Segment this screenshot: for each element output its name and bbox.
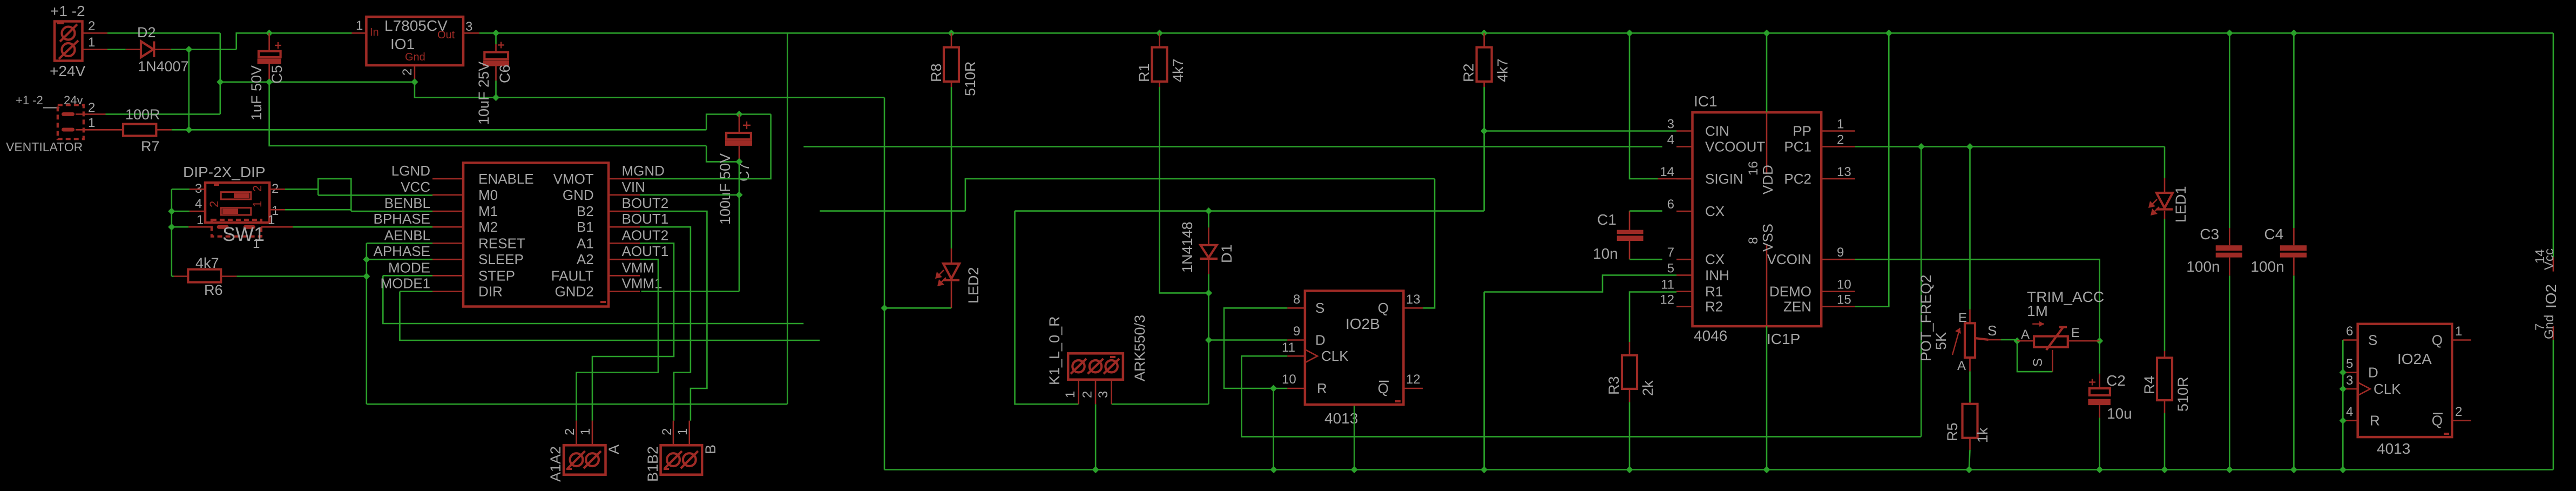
junction SIGIN top [1626, 30, 1633, 37]
svg-text:D1: D1 [1219, 244, 1235, 263]
svg-text:M2: M2 [478, 219, 498, 235]
wire K1 pin2 gnd [1095, 404, 1097, 469]
svg-text:+1 -2: +1 -2 [16, 93, 43, 107]
wire VIN [640, 194, 739, 196]
IC1 pin R2 12 [1660, 292, 1723, 314]
junction CIN row [1480, 127, 1488, 134]
connector X1 value +24V [50, 63, 85, 79]
svg-text:AOUT1: AOUT1 [622, 243, 669, 259]
IC1 VDD pin [1746, 33, 1776, 194]
junction trim E [2096, 338, 2103, 345]
IC1 pin PP 1 [1793, 117, 1855, 139]
bottom rail [884, 469, 2553, 470]
svg-text:9: 9 [1837, 245, 1844, 260]
svg-text:A: A [1957, 359, 1966, 373]
junction IO2A R [2340, 417, 2347, 424]
wire sw1 pin1 net [285, 209, 351, 211]
U1 pin M2 [432, 219, 498, 235]
IO2B pin R [1282, 372, 1327, 396]
junction C5 bottom [266, 78, 273, 85]
svg-text:VMM: VMM [622, 259, 655, 275]
wire LED2 gnd [884, 307, 951, 309]
svg-text:B2: B2 [577, 203, 594, 219]
net label AOUT2 [622, 227, 669, 243]
svg-text:100uF 50V: 100uF 50V [717, 153, 733, 225]
net label MGND [622, 163, 665, 179]
SW1 pin bottom left [188, 213, 212, 227]
svg-text:13: 13 [1837, 165, 1851, 179]
IC1 4046 [1694, 327, 1727, 344]
junction bottom rail [1351, 466, 1358, 473]
IC1 pin VCOIN 9 [1767, 245, 1855, 267]
IO1 refdes [390, 36, 415, 52]
wire D2out down to R7 row [188, 50, 190, 130]
net label LGND [391, 163, 430, 179]
net label APHASE [374, 243, 431, 259]
wire R5 gnd [1969, 450, 1970, 470]
IC1 pin INH 5 [1667, 261, 1729, 283]
svg-text:+1 -2: +1 -2 [50, 3, 85, 19]
svg-text:GND: GND [563, 187, 594, 203]
svg-text:1: 1 [675, 428, 690, 435]
junction C4 top [2290, 30, 2297, 37]
svg-text:R: R [1317, 380, 1327, 396]
junction R7 row [185, 126, 192, 133]
wire IO2B mid col [1354, 406, 1355, 470]
mark K1 [1110, 356, 1115, 358]
IC1 VSS pin [1746, 224, 1776, 470]
junction R2 top [1480, 30, 1488, 37]
junction bottom rail [1763, 466, 1770, 473]
net label BPHASE [374, 211, 431, 227]
pot POT_FREQ2 body [1965, 310, 1975, 358]
svg-text:LGND: LGND [391, 163, 430, 179]
junction R1 top [1156, 30, 1163, 37]
label C1 [1597, 211, 1617, 228]
wire VMM1 corner [641, 291, 739, 292]
label DIP-2X_DIP [183, 164, 266, 180]
mark IO2B [1395, 400, 1401, 402]
IO2B pin S [1287, 292, 1324, 316]
svg-text:BENBL: BENBL [384, 195, 430, 211]
junction C7 bottom [735, 158, 742, 165]
svg-text:B1B2: B1B2 [645, 446, 661, 482]
resistor R7 [123, 124, 172, 136]
svg-text:CLK: CLK [2374, 381, 2401, 397]
capacitor C2 [2088, 341, 2111, 469]
SW1 digit 2 left [207, 201, 221, 207]
label B [702, 445, 719, 454]
junction C6 top [492, 30, 499, 37]
svg-text:2: 2 [400, 69, 415, 76]
SW1 pin4 [190, 197, 205, 211]
junction D row [1205, 337, 1212, 344]
SIGIN lead [1658, 178, 1693, 180]
svg-text:10n: 10n [1593, 245, 1618, 262]
svg-text:IO2B: IO2B [1346, 315, 1380, 332]
svg-text:+24V: +24V [50, 63, 85, 79]
label R7 [141, 138, 160, 154]
wire AOUT2 [592, 243, 674, 420]
junction R8 top [948, 30, 955, 37]
IO2 Gnd pin [2533, 315, 2557, 340]
label 2k R3 [1640, 380, 1656, 396]
wire sw1 left column [171, 189, 172, 276]
label 10uF 25V [476, 62, 492, 125]
wire sw1 pin4 [172, 211, 190, 212]
svg-text:4046: 4046 [1694, 327, 1727, 344]
label 510R R4 [2175, 376, 2191, 412]
wire pin2 to gnd corner [107, 32, 220, 34]
net label BOUT2 [622, 195, 669, 211]
junction bottom rail [2226, 466, 2233, 473]
IC1 pin PC1 2 [1784, 133, 1855, 155]
SW1 pin3 [190, 181, 205, 196]
wire SIGIN col [1630, 33, 1658, 179]
svg-text:C5: C5 [269, 65, 285, 84]
IC1 pin CIN 3 [1667, 117, 1729, 139]
wire Q column [1423, 179, 1435, 308]
svg-text:LED2: LED2 [965, 267, 982, 304]
wire C1 bottom [1630, 259, 1662, 260]
IO2 Vcc pin [2533, 248, 2557, 272]
svg-text:R7: R7 [141, 138, 160, 154]
svg-text:1N4148: 1N4148 [1179, 221, 1195, 273]
svg-text:1: 1 [356, 18, 363, 33]
svg-text:1k: 1k [1975, 427, 1991, 443]
junction mode row [363, 273, 370, 280]
IO2A pin Q [2432, 324, 2471, 348]
svg-text:VDD: VDD [1760, 165, 1776, 194]
junction aphase [363, 256, 370, 263]
wire 5v rail to connectors [367, 403, 788, 405]
wire INH gnd col [1483, 292, 1485, 470]
connector B pin1 [675, 421, 690, 446]
svg-text:5: 5 [1667, 261, 1674, 275]
wire C5 gnd down [269, 82, 707, 146]
svg-text:FAULT: FAULT [551, 267, 594, 284]
wire 407 to ventilator [106, 113, 220, 115]
label SW1 gate 1 [253, 237, 260, 251]
resistor R3 [1622, 342, 1637, 402]
wire INH jog [1484, 275, 1676, 292]
svg-text:STEP: STEP [478, 267, 515, 284]
junction sw1 botleft [168, 224, 175, 231]
wire sw1 u-link [318, 179, 351, 211]
svg-text:IO1: IO1 [390, 36, 415, 52]
LED2 [935, 248, 959, 308]
svg-text:100n: 100n [2186, 258, 2220, 275]
svg-text:1: 1 [1837, 117, 1844, 132]
ventilator pin 1 [76, 116, 123, 130]
wire sw1 pin3 [172, 189, 190, 190]
connector X1 pin 2 [83, 19, 108, 33]
svg-text:4013: 4013 [1324, 410, 1358, 427]
wire dir west [820, 210, 965, 212]
connector A body [564, 445, 606, 474]
label 4k7 R2 [1495, 58, 1511, 82]
svg-text:4k7: 4k7 [195, 255, 219, 271]
IO2A pin R [2343, 405, 2379, 429]
label R8 [928, 63, 944, 82]
capacitor C1 [1617, 211, 1644, 260]
wire R1 down [1160, 87, 1209, 293]
svg-text:S: S [2031, 358, 2045, 367]
svg-text:VIN: VIN [622, 179, 645, 195]
svg-text:9: 9 [1293, 324, 1300, 339]
svg-text:INH: INH [1705, 267, 1729, 283]
mark A [566, 468, 572, 470]
wire vcoout long [803, 146, 1662, 147]
svg-text:R1: R1 [1136, 63, 1152, 82]
U1 pin ENABLE [432, 171, 534, 187]
svg-text:2: 2 [563, 428, 577, 435]
svg-text:7: 7 [1667, 245, 1674, 260]
net label VCC [401, 179, 430, 195]
resistor R8 [944, 33, 959, 87]
wire CLK net [1241, 356, 1921, 436]
junction bottom rail [2340, 466, 2347, 473]
svg-text:MGND: MGND [622, 163, 665, 179]
svg-text:D2: D2 [137, 24, 156, 41]
junction bottom rail [1092, 466, 1099, 473]
label C5 [269, 65, 285, 84]
IO2B pin D [1287, 324, 1325, 348]
svg-text:C4: C4 [2264, 226, 2283, 243]
svg-text:MODE1: MODE1 [381, 275, 430, 292]
svg-text:R3: R3 [1606, 376, 1622, 395]
junction bottom rail [1626, 466, 1633, 473]
svg-text:2: 2 [88, 100, 95, 115]
wire ZEN [1855, 33, 1889, 306]
IO2B pin CLK [1282, 340, 1349, 364]
svg-text:SIGIN: SIGIN [1705, 171, 1743, 187]
wire IO1 gnd down [415, 82, 884, 98]
IO1 Out [437, 29, 455, 41]
svg-text:IO2A: IO2A [2397, 351, 2432, 367]
IO2B pin Q [1378, 292, 1423, 316]
junction LED2 gnd [881, 305, 888, 312]
junction D1 bottom [1205, 290, 1212, 297]
svg-text:11: 11 [1661, 278, 1674, 292]
label 1N4007 [138, 58, 189, 75]
svg-text:2: 2 [1080, 391, 1095, 398]
svg-text:VCOIN: VCOIN [1767, 251, 1811, 267]
mark SW1 [214, 184, 219, 186]
svg-text:1: 1 [88, 35, 95, 50]
net label AENBL [384, 227, 430, 243]
label R1 [1136, 63, 1152, 82]
svg-text:Q: Q [1378, 380, 1389, 396]
diode D1 [1200, 211, 1218, 274]
svg-text:M0: M0 [478, 187, 498, 203]
svg-text:4: 4 [2346, 405, 2353, 419]
label 510R R8 [962, 61, 978, 96]
wire k1 pin3 [1112, 403, 1209, 405]
wire dir jog [400, 292, 820, 340]
junction bottom rail [2161, 466, 2168, 473]
svg-text:2: 2 [88, 19, 95, 33]
svg-text:15: 15 [1837, 292, 1851, 307]
svg-text:C2: C2 [2106, 372, 2126, 389]
svg-text:1: 1 [88, 116, 95, 130]
svg-text:R6: R6 [204, 282, 223, 298]
svg-text:IC1P: IC1P [1767, 331, 1800, 347]
label D2 [137, 24, 156, 41]
junction bottom rail [1270, 466, 1277, 473]
wire R3 gnd [1629, 402, 1631, 469]
wire d1 bottom col [1208, 274, 1209, 404]
IO1 Gnd [405, 51, 425, 63]
svg-text:1: 1 [268, 213, 275, 227]
svg-text:R8: R8 [928, 63, 944, 82]
wire MGND [640, 115, 770, 179]
svg-text:4: 4 [1667, 133, 1674, 147]
junction sw1 pin4 [168, 208, 175, 215]
label C4 [2264, 226, 2283, 243]
svg-text:Q: Q [1378, 300, 1389, 316]
U1 pin B2 [577, 203, 640, 219]
svg-text:3: 3 [1667, 117, 1674, 132]
K1 pin2 [1080, 380, 1096, 405]
label C3 [2200, 226, 2219, 243]
vcc rail [479, 32, 2553, 34]
mark U1 [600, 301, 606, 303]
U1 pin GND2 [555, 284, 640, 300]
connector K1 body [1068, 353, 1123, 379]
IO2A name [2397, 351, 2432, 367]
svg-text:A1: A1 [577, 235, 594, 251]
junction IO2A CLK [2340, 385, 2347, 392]
svg-text:100R: 100R [125, 106, 160, 123]
IC1 pin SIGIN 14 [1660, 165, 1743, 187]
svg-text:2: 2 [207, 201, 221, 207]
junction PC1 potE col [1966, 143, 1973, 150]
svg-text:DIP-2X_DIP: DIP-2X_DIP [183, 164, 266, 180]
wire S to trim [2001, 339, 2017, 341]
svg-text:10uF 25V: 10uF 25V [476, 62, 492, 125]
U1 pin M0 [432, 187, 498, 203]
wire AOUT1 [577, 259, 659, 421]
wire gnd vertical x407 [219, 33, 221, 114]
U1 pin B1 [577, 219, 640, 235]
svg-text:D: D [1315, 332, 1326, 348]
mark B [664, 468, 669, 470]
SW1 pin bottom right [261, 213, 293, 227]
IC1 pin R1 11 [1661, 278, 1723, 300]
junction VDD top [1763, 30, 1770, 37]
label A pot [1957, 359, 1966, 373]
net label MODE1 [381, 275, 430, 292]
regulator IO1 box [366, 17, 463, 65]
svg-text:Q: Q [2432, 413, 2443, 429]
IO2A pin D [2343, 357, 2378, 381]
label E pot [1958, 311, 1967, 325]
wire C7minus jog [706, 146, 739, 162]
IC1 pin VCOOUT 4 [1667, 133, 1766, 155]
svg-text:3: 3 [1096, 391, 1111, 398]
svg-text:CLK: CLK [1321, 348, 1349, 364]
svg-text:C6: C6 [497, 64, 513, 83]
pot arrow [1952, 328, 1961, 355]
svg-text:R: R [2370, 413, 2380, 429]
svg-text:6: 6 [1667, 197, 1674, 212]
svg-text:VCC: VCC [401, 179, 430, 195]
svg-text:GND2: GND2 [555, 284, 593, 300]
resistor R4 [2157, 351, 2172, 413]
wire aphase row [367, 259, 432, 260]
svg-text:B1: B1 [577, 219, 594, 235]
wire d1 line [1015, 210, 1484, 212]
connector A pin2 [563, 421, 577, 446]
capacitor C7 [725, 115, 752, 162]
svg-text:C1: C1 [1597, 211, 1617, 228]
svg-text:ZEN: ZEN [1783, 298, 1811, 314]
capacitor C4 [2280, 33, 2307, 469]
label 4k7 R1 [1170, 58, 1186, 82]
svg-text:A1A2: A1A2 [547, 446, 564, 482]
junction IO1 gnd [411, 78, 418, 85]
svg-text:BOUT1: BOUT1 [622, 211, 669, 227]
net label AOUT1 [622, 243, 669, 259]
IC1 label [1694, 93, 1718, 110]
net label VMM [622, 259, 655, 275]
svg-text:2: 2 [2455, 405, 2462, 419]
label POT_FREQ2 [1918, 274, 1934, 361]
junction C7 top [735, 111, 742, 118]
wire R gnd col [1273, 388, 1274, 470]
label B1B2 [645, 446, 661, 482]
svg-text:ENABLE: ENABLE [478, 171, 534, 187]
wire aenbl row [367, 243, 432, 244]
svg-text:APHASE: APHASE [374, 243, 431, 259]
wire sw1 botleft [172, 226, 188, 228]
connector VENTILATOR body [58, 105, 84, 139]
U1 pin A1 [577, 235, 640, 251]
label C7 [736, 163, 752, 181]
trim E lead [2068, 340, 2100, 342]
junction D1 top [1205, 207, 1212, 214]
label LED2 [965, 267, 982, 304]
svg-text:IO2: IO2 [2543, 284, 2559, 308]
svg-text:1: 1 [1063, 391, 1078, 398]
svg-text:10: 10 [1282, 372, 1296, 387]
svg-text:PC1: PC1 [1784, 139, 1811, 155]
svg-text:8: 8 [1293, 292, 1300, 307]
wire C7 to VIN [739, 162, 740, 291]
U1 pin A2 [577, 251, 640, 267]
U1 pin STEP [432, 267, 515, 284]
svg-text:R2: R2 [1461, 63, 1477, 82]
label R5 [1944, 422, 1960, 441]
net label MODE [388, 259, 430, 275]
junction bottom rail [1965, 466, 1972, 473]
U1 pin RESET [432, 235, 525, 251]
svg-text:1: 1 [251, 201, 264, 207]
svg-text:1: 1 [2455, 324, 2462, 339]
wire PC1 row [1855, 146, 2165, 147]
trim A lead [2017, 340, 2034, 342]
label R4 [2141, 375, 2158, 394]
junction bottom rail [2290, 466, 2297, 473]
svg-text:1uF 50V: 1uF 50V [248, 65, 265, 120]
IO2A pin S [2343, 324, 2377, 348]
connector X1 pin 1 [83, 35, 108, 50]
svg-text:12: 12 [1660, 292, 1674, 307]
net label BOUT1 [622, 211, 669, 227]
IO2B 4013 [1324, 410, 1358, 427]
label IO2 [2543, 284, 2559, 308]
